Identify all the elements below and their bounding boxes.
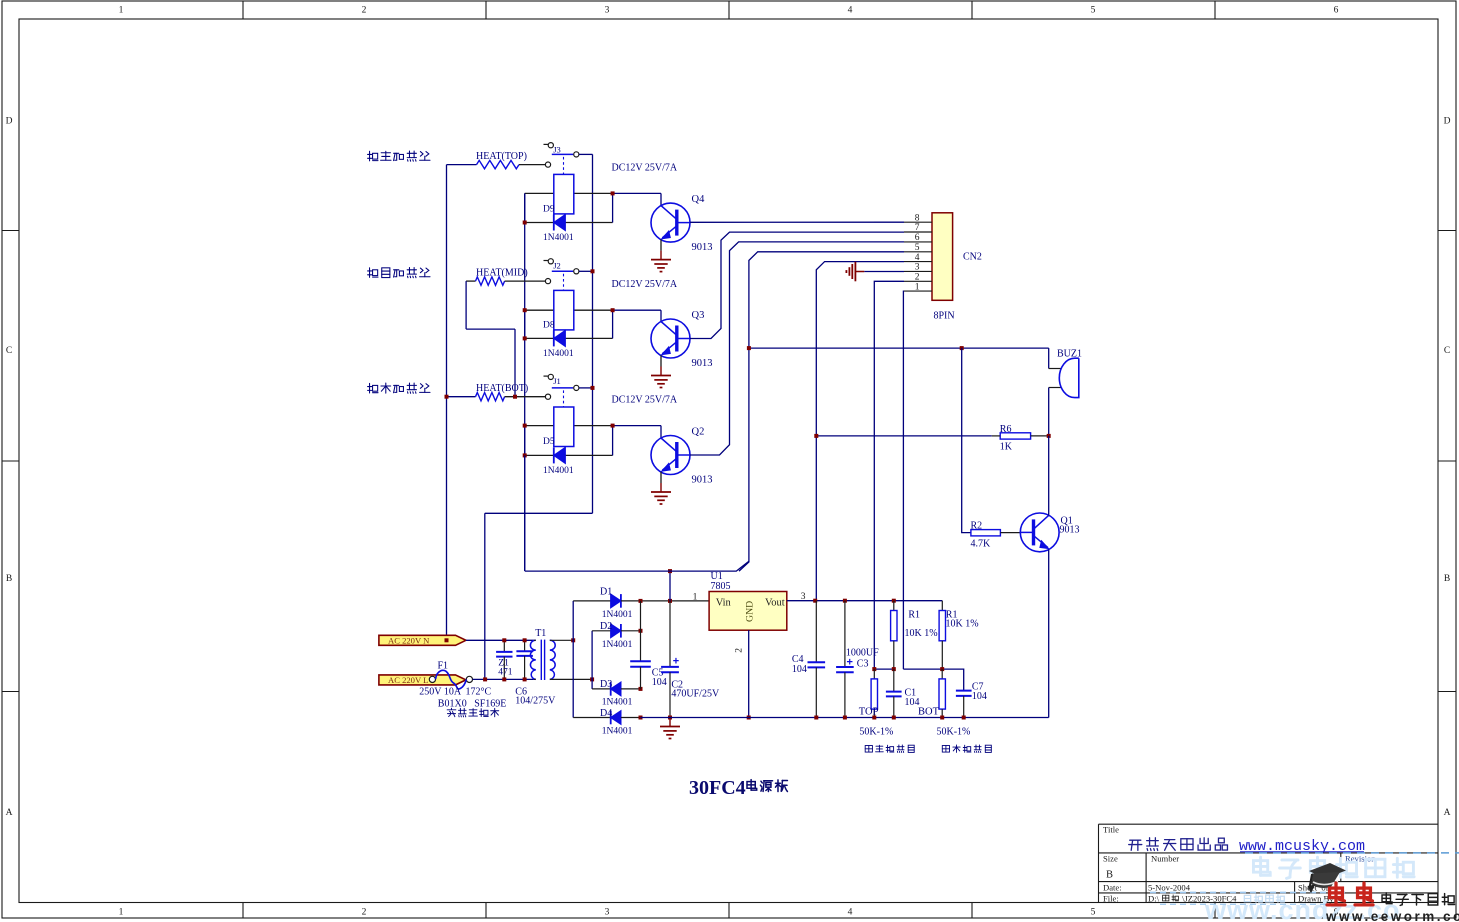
transistor Q3	[651, 310, 713, 369]
junction	[523, 308, 527, 312]
junction	[940, 716, 944, 720]
svg-text:BUZ1: BUZ1	[1057, 348, 1082, 359]
junction	[639, 716, 643, 720]
svg-text:1000UF: 1000UF	[846, 648, 879, 659]
fuse F1	[429, 660, 472, 689]
wire: +5V to R6	[816, 435, 992, 437]
svg-text:10K 1%: 10K 1%	[946, 618, 979, 629]
svg-text:Q4: Q4	[692, 194, 706, 205]
svg-text:D2: D2	[600, 621, 612, 632]
svg-text:4: 4	[848, 908, 853, 918]
svg-text:30FC4: 30FC4	[689, 777, 746, 799]
thermistor TOP 50K-1%	[859, 669, 879, 717]
svg-text:HEAT(TOP): HEAT(TOP)	[476, 151, 527, 162]
svg-text:J2: J2	[553, 261, 561, 271]
label mounting note	[447, 708, 499, 717]
wire: AC L line	[473, 678, 534, 680]
wire: AC N line	[466, 639, 534, 641]
label pot-lid heater (Chinese)	[368, 151, 430, 161]
svg-text:Size: Size	[1103, 854, 1118, 864]
wire: CN2 pin 2 to TOP sensor	[874, 281, 904, 669]
heater resistor HEAT(TOP)	[447, 160, 546, 168]
svg-text:6: 6	[1334, 6, 1339, 16]
svg-text:3: 3	[915, 263, 920, 273]
svg-text:10K 1%: 10K 1%	[905, 628, 938, 639]
svg-text:50K-1%: 50K-1%	[859, 726, 893, 737]
relay coil D5	[525, 407, 613, 447]
junction	[843, 599, 847, 603]
svg-text:8PIN: 8PIN	[934, 310, 955, 321]
junction	[639, 687, 643, 691]
svg-text:DC12V 25V/7A: DC12V 25V/7A	[612, 395, 678, 406]
label DC12V 25V/7A	[612, 162, 678, 173]
junction	[814, 716, 818, 720]
junction	[523, 336, 527, 340]
junction	[1047, 434, 1051, 438]
svg-text:2: 2	[735, 648, 745, 653]
wire: Q2 base to CN2 pin 6	[690, 242, 904, 455]
svg-text:1N4001: 1N4001	[602, 610, 633, 620]
heater resistor HEAT(BOT)	[447, 393, 546, 401]
junction	[872, 667, 876, 671]
capacitor C4 104	[792, 601, 825, 718]
thermistor BOT 50K-1%	[918, 669, 945, 717]
relay switch J3	[544, 143, 593, 175]
svg-text:A: A	[6, 808, 13, 818]
svg-text:3: 3	[605, 908, 610, 918]
value label 50K-1% (BOT)	[937, 726, 971, 737]
publisher title	[1129, 838, 1365, 855]
svg-text:1: 1	[915, 282, 920, 292]
port AC 220V N	[379, 635, 466, 645]
junction	[668, 599, 672, 603]
svg-text:Vout: Vout	[765, 597, 785, 608]
wire: coil to transistor Q2	[613, 426, 661, 438]
junction	[892, 716, 896, 720]
svg-text:D5: D5	[543, 437, 555, 447]
svg-text:R2: R2	[971, 521, 983, 532]
svg-text:D8: D8	[543, 320, 555, 330]
junction	[813, 599, 817, 603]
svg-text:HEAT(BOT): HEAT(BOT)	[476, 383, 528, 394]
svg-text:1N4001: 1N4001	[543, 233, 574, 243]
wire: Vout rail (+5V)	[787, 600, 943, 602]
resistor R2 4.7K	[971, 521, 1021, 550]
svg-text:BOT: BOT	[918, 706, 940, 717]
diode D5 1N4001 (snubber)	[525, 426, 613, 476]
junction	[513, 395, 517, 399]
ground (power)	[660, 718, 680, 739]
svg-text:1N4001: 1N4001	[543, 349, 574, 359]
capacitor C1 104	[886, 669, 920, 717]
watermark light blue characters	[1150, 853, 1459, 922]
svg-text:4: 4	[848, 6, 853, 16]
svg-text:+: +	[673, 655, 679, 667]
ground (emitter Q4)	[651, 239, 671, 271]
junction	[611, 308, 615, 312]
wire: CN2 pin 1 to BOT sensor	[902, 291, 905, 669]
wire: relay common bus to AC L	[485, 154, 593, 679]
wire: +12V rail from bridge	[525, 561, 749, 571]
svg-text:D3: D3	[600, 679, 612, 690]
wire: bridge mid rail	[591, 631, 593, 689]
junction	[940, 667, 944, 671]
junction	[747, 716, 751, 720]
svg-text:GND: GND	[745, 601, 756, 622]
net label HEAT(BOT)	[476, 383, 528, 394]
label pot-bottom heater (Chinese)	[368, 383, 430, 393]
svg-text:8: 8	[915, 213, 920, 223]
wire: bus corner to +12V rail	[524, 455, 526, 571]
value label 50K-1% (TOP)	[859, 726, 893, 737]
svg-text:9013: 9013	[692, 242, 713, 253]
ground (emitter Q2)	[651, 472, 671, 504]
svg-text:AC 220V N: AC 220V N	[388, 636, 430, 646]
wire: U1 pin2 to ground rail	[748, 630, 750, 717]
regulator U1 7805	[693, 571, 806, 653]
junction	[639, 629, 643, 633]
ground (emitter Q3)	[651, 355, 671, 387]
wire: BOT node	[903, 669, 963, 691]
transformer T1	[530, 628, 555, 680]
svg-text:104/275V: 104/275V	[515, 696, 556, 707]
relay coil D9	[525, 174, 613, 214]
wire: Q4 base to CN2 pin 8	[690, 221, 904, 223]
svg-text:4: 4	[915, 253, 920, 263]
svg-text:2: 2	[915, 273, 920, 283]
wire: ground rail	[641, 717, 1049, 719]
diode D1 1N4001	[573, 586, 709, 620]
label DC12V 25V/7A	[612, 395, 678, 406]
svg-text:D: D	[6, 117, 13, 127]
svg-text:1: 1	[119, 908, 124, 918]
svg-text:C: C	[1444, 346, 1450, 356]
svg-text:Q2: Q2	[692, 427, 705, 438]
wire: coil to transistor Q3	[613, 310, 661, 321]
svg-text:Title: Title	[1103, 825, 1119, 835]
resistor R1 10K 1% (top sensor)	[891, 601, 938, 669]
transistor Q1 9013	[1020, 513, 1079, 552]
svg-text:3: 3	[605, 6, 610, 16]
wire: CN2 pin 3 to earth	[864, 271, 904, 273]
junction	[483, 677, 487, 681]
svg-text:Number: Number	[1151, 854, 1179, 864]
svg-text:1K: 1K	[1000, 441, 1013, 452]
svg-text:HEAT(MID): HEAT(MID)	[476, 268, 528, 279]
svg-text:Q3: Q3	[692, 310, 705, 321]
svg-text:AC 220V L: AC 220V L	[388, 675, 428, 685]
svg-text:5: 5	[1091, 6, 1096, 16]
junction	[591, 386, 595, 390]
junction	[747, 346, 751, 350]
svg-text:D:\: D:\	[1148, 894, 1160, 904]
svg-text:B: B	[1106, 870, 1113, 881]
wire: R2 feed from +12V	[962, 348, 971, 532]
svg-text:1: 1	[119, 6, 124, 16]
junction	[502, 638, 506, 642]
port AC 220V L	[379, 675, 466, 685]
svg-text:R1: R1	[908, 609, 920, 620]
relay switch J2	[544, 259, 593, 291]
junction	[872, 716, 876, 720]
junction	[571, 638, 575, 642]
svg-text:104: 104	[652, 677, 667, 688]
wire: Q1 collector	[1048, 436, 1050, 516]
wire: secondary top	[550, 639, 573, 641]
svg-text:9013: 9013	[692, 358, 713, 369]
label DC12V 25V/7A	[612, 279, 678, 290]
svg-text:5-Nov-2004: 5-Nov-2004	[1148, 883, 1191, 893]
watermark chongchong red characters	[1327, 883, 1373, 905]
svg-text:2: 2	[362, 908, 367, 918]
wire: Q3 base to CN2 pin 7	[690, 232, 904, 338]
junction	[814, 434, 818, 438]
junction	[590, 677, 594, 681]
svg-text:2: 2	[362, 6, 367, 16]
junction	[502, 677, 506, 681]
svg-text:470UF/25V: 470UF/25V	[671, 689, 720, 700]
svg-text:D1: D1	[600, 586, 612, 597]
wire: bridge left rail	[572, 601, 574, 718]
net label HEAT(MID)	[476, 268, 528, 279]
wire: +12V node to Vin	[669, 571, 671, 601]
net label HEAT(TOP)	[476, 151, 527, 162]
svg-text:9013: 9013	[1060, 525, 1080, 536]
svg-text:5: 5	[1091, 908, 1096, 918]
wire: CN2 pin 5 to +12V rail	[739, 252, 904, 571]
svg-text:104: 104	[792, 664, 807, 675]
wire: HEAT(MID) return	[466, 281, 515, 397]
junction	[445, 395, 449, 399]
junction	[892, 599, 896, 603]
capacitor C3 1000UF	[836, 601, 879, 718]
diode D4 1N4001	[573, 708, 640, 737]
svg-text:Date:: Date:	[1103, 883, 1122, 893]
junction	[668, 716, 672, 720]
capacitor C6 104/275V	[515, 640, 556, 706]
diode D9 1N4001 (snubber)	[525, 193, 613, 243]
svg-text:J1: J1	[553, 376, 561, 386]
svg-text:5: 5	[915, 243, 920, 253]
wire: secondary bottom	[550, 678, 592, 680]
capacitor C5 104	[630, 601, 667, 689]
svg-text:B: B	[6, 574, 12, 584]
heater resistor HEAT(MID)	[466, 277, 545, 285]
watermark graduation cap logo	[1308, 863, 1347, 894]
junction	[611, 191, 615, 195]
svg-text:1N4001: 1N4001	[602, 726, 633, 736]
wire: Q1 emitter to ground rail	[1048, 550, 1050, 718]
junction	[523, 221, 527, 225]
svg-text:7805: 7805	[711, 581, 731, 592]
junction	[591, 269, 595, 273]
label F1 ratings	[419, 687, 506, 710]
svg-text:T1: T1	[535, 628, 546, 639]
svg-text:J3: J3	[553, 144, 561, 154]
svg-text:4.7K: 4.7K	[971, 539, 992, 550]
junction	[960, 346, 964, 350]
diode D2 1N4001	[592, 621, 640, 650]
junction	[668, 569, 672, 573]
title block	[1099, 824, 1439, 903]
diode D3 1N4001	[592, 679, 640, 708]
junction	[843, 716, 847, 720]
junction	[962, 716, 966, 720]
resistor R1 10K 1% (bottom sensor)	[939, 601, 978, 669]
buzzer BUZ1	[1049, 348, 1082, 436]
svg-text:www.eeworm.com: www.eeworm.com	[1325, 909, 1459, 922]
svg-text:DC12V 25V/7A: DC12V 25V/7A	[612, 162, 678, 173]
junction	[523, 453, 527, 457]
svg-text:B: B	[1444, 574, 1450, 584]
relay switch J1	[544, 374, 593, 407]
wire: heater bus (AC N side)	[446, 165, 448, 641]
relay coil D8	[525, 290, 613, 330]
junction	[892, 667, 896, 671]
junction	[611, 424, 615, 428]
junction	[639, 599, 643, 603]
svg-text:1: 1	[693, 593, 698, 603]
svg-text:50K-1%: 50K-1%	[937, 726, 971, 737]
svg-text:7: 7	[915, 223, 920, 233]
svg-text:D4: D4	[600, 708, 612, 719]
transistor Q2	[651, 427, 713, 486]
capacitor C2 470UF/25V	[661, 601, 720, 718]
svg-text:File:: File:	[1103, 894, 1119, 904]
svg-text:1N4001: 1N4001	[602, 640, 633, 650]
wire: CN2 pin 4 to +5V	[816, 262, 904, 601]
resistor R6 1K	[992, 424, 1049, 452]
diode D8 1N4001 (snubber)	[525, 310, 613, 359]
svg-text:C3: C3	[857, 658, 869, 669]
svg-text:DC12V 25V/7A: DC12V 25V/7A	[612, 279, 678, 290]
wire: TOP node	[874, 668, 894, 670]
svg-text:Vin: Vin	[716, 597, 732, 608]
svg-text:471: 471	[498, 668, 513, 678]
capacitor C7 104	[956, 681, 987, 717]
connector CN2 8PIN	[904, 213, 982, 321]
label sensor (TOP Chinese)	[865, 745, 914, 753]
wire: coil to transistor Q4	[613, 193, 661, 205]
junction	[445, 638, 449, 642]
label sensor (BOT Chinese)	[942, 745, 991, 753]
svg-text:D9: D9	[543, 204, 555, 214]
watermark download site name	[1325, 893, 1459, 922]
wire: +12V rail	[749, 347, 1049, 349]
svg-text:250V 10A 172°C: 250V 10A 172°C	[419, 687, 491, 698]
svg-text:C: C	[6, 346, 12, 356]
label pot-body heater (Chinese)	[368, 267, 430, 277]
svg-text:R6: R6	[1000, 424, 1012, 435]
junction	[523, 638, 527, 642]
svg-text:1N4001: 1N4001	[602, 698, 633, 708]
svg-text:1N4001: 1N4001	[543, 466, 574, 476]
transistor Q4	[651, 194, 713, 253]
title 30FC4 power board	[689, 777, 787, 799]
earth ground (CN2 pin 3)	[846, 262, 864, 282]
svg-text:D: D	[1444, 117, 1451, 127]
varistor Z1 471	[496, 640, 513, 679]
svg-text:104: 104	[972, 691, 987, 702]
junction	[523, 677, 527, 681]
svg-text:9013: 9013	[692, 475, 713, 486]
junction	[523, 424, 527, 428]
svg-text:CN2: CN2	[963, 251, 982, 262]
svg-text:6: 6	[915, 233, 920, 243]
svg-text:A: A	[1444, 808, 1451, 818]
wire: +12V coil bus	[524, 193, 526, 571]
svg-text:B01X0 SF169E: B01X0 SF169E	[438, 699, 507, 710]
